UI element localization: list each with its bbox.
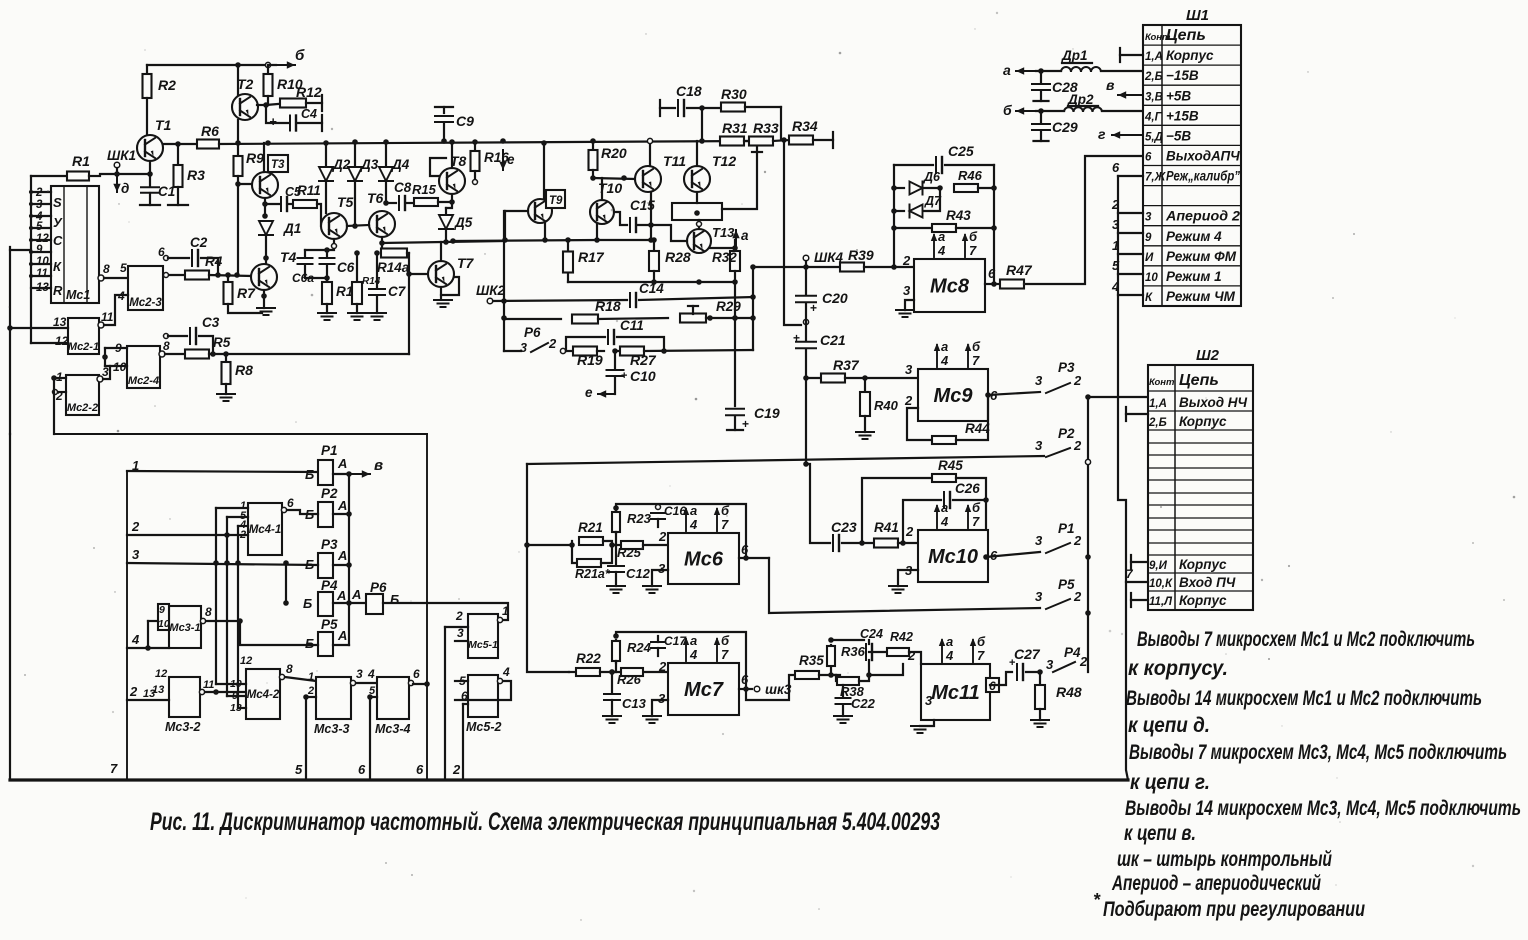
svg-text:Мс3-1: Мс3-1 [169, 622, 200, 634]
resistor R12 [266, 104, 278, 105]
frame right vertical [426, 434, 428, 780]
svg-text:R2: R2 [158, 77, 176, 93]
svg-text:10: 10 [1145, 272, 1158, 284]
wire shk4 stub [805, 261, 807, 267]
arrow а up [735, 230, 737, 248]
resistor R43 row [894, 227, 932, 229]
wire Mc5-1 inputs [445, 626, 468, 628]
svg-text:R3: R3 [187, 167, 205, 183]
svg-text:R44: R44 [965, 421, 990, 436]
wire Mc2-2 output loop [103, 366, 110, 379]
transistor T12 [684, 166, 710, 192]
wire Mc6 out [739, 557, 769, 559]
svg-text:ШК1: ШК1 [107, 148, 136, 163]
wire top rail to б [147, 64, 276, 66]
svg-text:8: 8 [103, 262, 110, 276]
svg-text:С12: С12 [626, 566, 651, 581]
wire R9-T3 base [238, 183, 252, 185]
diode D1 [259, 221, 273, 235]
wire T8 collector [451, 142, 453, 168]
resistor R22 [576, 668, 600, 676]
capacitor C19 [726, 408, 744, 410]
svg-text:1: 1 [1112, 238, 1119, 253]
svg-text:К: К [53, 259, 62, 274]
wire R18 row [504, 318, 561, 320]
bottom bus [10, 778, 1128, 781]
notes text [1093, 628, 1521, 921]
svg-text:Р2: Р2 [1058, 426, 1075, 441]
svg-text:R20: R20 [601, 145, 627, 161]
svg-text:Режим ЧМ: Режим ЧМ [1166, 289, 1236, 304]
svg-text:R6: R6 [201, 123, 219, 139]
wire Вход ПЧ [1126, 581, 1148, 583]
svg-text:Мс11: Мс11 [931, 682, 980, 704]
svg-text:Др2: Др2 [1067, 92, 1094, 107]
wire x504 vertical [503, 240, 505, 301]
switch P6 [504, 350, 521, 352]
svg-text:в: в [374, 457, 383, 474]
svg-text:С19: С19 [754, 405, 780, 421]
wire R4 row [164, 273, 169, 278]
svg-text:С24: С24 [860, 627, 883, 641]
svg-text:С14: С14 [639, 281, 664, 296]
transistor T3 [252, 172, 278, 198]
capacitor C27 [1016, 664, 1018, 680]
svg-text:Цепь: Цепь [1179, 372, 1219, 389]
T12 emitter box [672, 203, 722, 220]
svg-text:Цепь: Цепь [1166, 27, 1206, 44]
wire T11 emitter [650, 192, 652, 240]
resistor R5 [185, 350, 209, 359]
svg-text:Мс4-1: Мс4-1 [249, 524, 282, 536]
svg-text:4,Г: 4,Г [1144, 111, 1163, 123]
Ш1 row1 ground stub [1119, 48, 1121, 62]
arrow to node б [270, 64, 295, 66]
wire R32 node down to C19 [734, 282, 736, 406]
IC Mc7 [668, 663, 739, 715]
svg-text:2: 2 [1073, 438, 1082, 453]
svg-text:R14а: R14а [377, 260, 410, 275]
wire R21 out [603, 541, 612, 545]
wire input node [100, 173, 150, 175]
wire T9 base [505, 210, 528, 212]
svg-text:Д1: Д1 [283, 221, 301, 236]
svg-text:2: 2 [1073, 373, 1082, 388]
svg-text:12: 12 [55, 334, 69, 348]
svg-text:S: S [53, 195, 62, 210]
svg-text:д: д [121, 181, 129, 196]
wire R21 node [527, 544, 572, 546]
svg-text:10: 10 [36, 256, 49, 268]
arrow е down at rail [502, 150, 504, 170]
svg-text:Режим ФМ: Режим ФМ [1166, 249, 1237, 264]
wire C18 junction down [701, 108, 703, 141]
svg-text:6: 6 [988, 266, 996, 281]
IC Mc6 [668, 533, 739, 584]
svg-text:Т2: Т2 [237, 76, 254, 92]
svg-text:R7: R7 [237, 285, 256, 301]
arrow b [1016, 110, 1036, 112]
resistor R41 [874, 539, 898, 548]
svg-text:+: + [742, 417, 749, 431]
svg-text:С21: С21 [820, 332, 846, 348]
IC Mc5-1 [468, 614, 498, 658]
T3 label box [268, 155, 288, 172]
svg-text:Апериод – апериодический: Апериод – апериодический [1111, 872, 1321, 895]
svg-text:9: 9 [159, 604, 165, 616]
svg-text:е: е [585, 385, 593, 400]
svg-text:2,Б: 2,Б [1148, 417, 1167, 429]
resistor R24 [615, 640, 617, 663]
IC Mc2-1 [68, 318, 99, 354]
transistor T1 [137, 135, 163, 161]
svg-text:Р3: Р3 [321, 537, 338, 552]
resistor R33 [744, 140, 750, 142]
svg-text:3: 3 [132, 547, 140, 562]
svg-text:12: 12 [240, 655, 252, 667]
svg-text:R17: R17 [578, 249, 605, 265]
svg-text:*: * [1093, 890, 1101, 910]
svg-text:С18: С18 [676, 83, 702, 99]
wire T2 base node [257, 104, 268, 106]
svg-text:7: 7 [972, 353, 980, 368]
wire x806 down [805, 378, 807, 464]
svg-text:2: 2 [548, 336, 557, 351]
svg-text:3: 3 [903, 283, 911, 298]
svg-text:Выводы 7 микросхем Мс3, Мс4,: Выводы 7 микросхем Мс3, Мс4, Мс5 подключ… [1129, 741, 1507, 764]
resistor R20 [592, 141, 594, 150]
Mc1 left pin numbers [35, 187, 49, 294]
capacitor C26 [903, 500, 941, 543]
transistor T5 [321, 213, 347, 239]
wire to R35 [746, 675, 795, 700]
resistor R32 [734, 240, 736, 251]
wire Mc11 out C27 [990, 672, 1012, 685]
ground under R40 [856, 431, 874, 433]
svg-text:С11: С11 [620, 318, 644, 333]
svg-text:1,А: 1,А [1145, 51, 1163, 63]
svg-text:б: б [972, 500, 981, 515]
svg-text:1,А: 1,А [1149, 398, 1167, 410]
svg-text:Мс9: Мс9 [934, 385, 974, 407]
svg-text:2: 2 [658, 529, 667, 544]
svg-text:7: 7 [721, 517, 729, 532]
svg-text:Т1: Т1 [155, 117, 172, 133]
svg-text:8: 8 [163, 339, 170, 353]
wire T2 collector [237, 65, 239, 95]
diode D7 [910, 205, 923, 218]
svg-text:6: 6 [741, 542, 749, 557]
svg-text:б: б [721, 633, 730, 648]
resistor R8 [225, 354, 227, 362]
column verticals [215, 508, 217, 684]
ground under R48 [1031, 719, 1049, 721]
wire T10 emitter [596, 223, 598, 240]
svg-text:4: 4 [1111, 279, 1120, 294]
svg-text:5: 5 [120, 261, 127, 275]
wire input to Mc6/Mc7 [527, 464, 569, 672]
svg-text:С26: С26 [955, 481, 980, 496]
wire Mc2-2 bottom to frame [53, 378, 55, 434]
IC Mc2-4 [127, 346, 160, 388]
svg-text:2: 2 [905, 524, 914, 539]
svg-text:Ш1: Ш1 [1186, 7, 1209, 24]
ground Mc10 pin3 [898, 570, 918, 586]
ground under R8 [217, 393, 235, 395]
resistor R37 row [806, 377, 821, 379]
svg-text:R34: R34 [792, 118, 818, 134]
ground Mc11 pin3 [920, 720, 934, 726]
svg-text:3: 3 [356, 667, 363, 681]
wire input 2b [127, 699, 169, 701]
wire C24 bottom [868, 660, 870, 675]
wire p5 stub [370, 696, 377, 698]
IC Mc8 [914, 259, 985, 312]
svg-text:7: 7 [977, 648, 985, 663]
resistor R1 [31, 175, 68, 177]
svg-text:Б: Б [305, 636, 314, 651]
svg-text:С3: С3 [202, 315, 220, 330]
svg-text:С2: С2 [190, 235, 208, 250]
wire T10 collector [601, 178, 603, 200]
svg-text:3: 3 [520, 341, 527, 355]
IC Mc3-4 [377, 677, 409, 719]
wire R14a-T7 base [409, 273, 429, 275]
svg-text:С13: С13 [622, 696, 647, 711]
svg-text:9,И: 9,И [1149, 560, 1168, 572]
R33 trimmer tap [756, 146, 758, 152]
wire 4 up [147, 621, 149, 648]
svg-text:4: 4 [940, 514, 949, 529]
svg-text:шк3: шк3 [765, 682, 792, 697]
svg-text:R36: R36 [841, 644, 866, 659]
svg-text:R11: R11 [297, 183, 321, 198]
svg-text:С8: С8 [394, 180, 412, 195]
svg-text:Мс5-1: Мс5-1 [468, 639, 498, 651]
svg-text:4: 4 [689, 517, 698, 532]
svg-text:3: 3 [102, 365, 109, 379]
svg-text:R15: R15 [412, 182, 437, 197]
wire x286 down to P4 row [285, 563, 287, 603]
wire T13 emitter to R32 [710, 247, 735, 249]
resistor R36 [830, 645, 832, 675]
IC Mc4-1 [248, 503, 282, 555]
IC Mc4-2 [246, 669, 280, 719]
resistor R3 [177, 144, 179, 165]
wire R14a right vertical [408, 253, 410, 354]
wire to Mc11 pin2 [869, 664, 903, 675]
test pin ШК1 circle [114, 162, 120, 168]
wire Mc2-1 out to Mc2-3 [104, 295, 128, 325]
wire P3 to Sh2 row1 [1088, 396, 1148, 398]
capacitor C14 [629, 293, 631, 307]
IC Mc3-2 [169, 677, 200, 717]
transistor T10 [590, 200, 614, 224]
svg-text:3: 3 [658, 561, 666, 576]
resistor R18 [572, 315, 598, 324]
svg-text:R42: R42 [890, 630, 913, 644]
resistor R46 [954, 184, 978, 192]
svg-text:У: У [53, 215, 63, 230]
svg-text:Мс7: Мс7 [684, 679, 724, 701]
svg-text:Т4: Т4 [280, 249, 297, 265]
svg-text:R28: R28 [665, 249, 691, 265]
transistor T7 [428, 261, 454, 287]
resistor R47 [1000, 280, 1024, 289]
wire input 4 [127, 647, 169, 649]
wire T12 collector [696, 141, 698, 166]
resistor R17 [567, 240, 569, 252]
resistor R7 [227, 275, 229, 282]
wire Mc2-1 inputs [10, 327, 68, 329]
diode D6 row [893, 165, 895, 267]
resistor R27 [615, 350, 620, 352]
capacitor C20 [805, 267, 807, 294]
svg-text:R22: R22 [576, 651, 601, 666]
svg-text:к корпусу.: к корпусу. [1128, 657, 1228, 680]
svg-text:R25: R25 [617, 545, 642, 560]
wire long y464 [527, 456, 1044, 464]
svg-text:+: + [810, 301, 817, 315]
wire node down to SHK4 line [784, 140, 801, 325]
resistor R25 [612, 544, 620, 546]
svg-text:Режим 4: Режим 4 [1166, 229, 1222, 244]
svg-text:R46: R46 [958, 168, 983, 183]
svg-text:А: А [337, 498, 347, 513]
svg-text:7: 7 [972, 514, 980, 529]
svg-text:3: 3 [1112, 217, 1120, 232]
capacitor C29 [1040, 111, 1042, 122]
svg-text:+5В: +5В [1166, 88, 1191, 103]
contact bus vertical [348, 474, 350, 645]
svg-text:6: 6 [741, 672, 749, 687]
svg-text:8: 8 [286, 662, 293, 676]
svg-text:2: 2 [129, 684, 138, 699]
wire Mc9 out to P3 [988, 392, 1040, 395]
svg-text:R: R [53, 283, 63, 298]
svg-text:6: 6 [1112, 160, 1120, 175]
transistor T6 [369, 211, 395, 237]
wire R2-T1 collector [146, 98, 148, 135]
svg-text:1: 1 [308, 671, 314, 683]
wire Mc6 out to P5 [769, 558, 1040, 613]
wire Mc2-2 pins [54, 377, 66, 379]
wire Mc3-3 bottom [305, 697, 307, 780]
wire R2 top [146, 65, 148, 75]
svg-text:3: 3 [1035, 533, 1043, 548]
svg-text:Д4: Д4 [391, 157, 410, 172]
resistor R13 [326, 278, 328, 282]
diode D5 [445, 208, 447, 214]
wire input 3 [127, 563, 318, 565]
svg-text:ВыходАПЧ: ВыходАПЧ [1166, 149, 1240, 164]
svg-text:к цепи в.: к цепи в. [1124, 822, 1196, 845]
svg-text:С27: С27 [1014, 646, 1041, 662]
svg-text:6: 6 [1145, 152, 1152, 164]
svg-text:Т7: Т7 [457, 255, 475, 271]
wire Mc3-1 out to P5 [206, 621, 318, 645]
svg-text:А: А [337, 548, 347, 563]
resistor R11 [293, 200, 317, 208]
wire D3 down [354, 181, 356, 226]
capacitor C4 [266, 105, 288, 123]
wire input 2 [127, 534, 248, 536]
svg-text:к цепи д.: к цепи д. [1128, 714, 1210, 737]
IC Mc1 box [51, 186, 99, 303]
terminal after R34 [832, 132, 834, 148]
svg-text:+: + [621, 370, 627, 382]
svg-text:Выводы 14 микросхем Мс1 и Мс: Выводы 14 микросхем Мс1 и Мс2 подключить [1126, 687, 1482, 710]
svg-text:Мс3-2: Мс3-2 [165, 720, 200, 734]
svg-text:3: 3 [905, 362, 913, 377]
IC Mc11 [921, 664, 990, 720]
svg-text:4: 4 [940, 353, 949, 368]
wire T9 collector riser [543, 143, 545, 200]
capacitor C5 [265, 203, 279, 205]
svg-text:10,К: 10,К [1149, 578, 1173, 590]
svg-text:А: А [336, 588, 346, 603]
wire x753 vertical [752, 267, 754, 350]
svg-text:7: 7 [721, 647, 729, 662]
svg-text:Д6: Д6 [923, 170, 941, 184]
wire Mc7 out, pin шк3 [739, 688, 752, 690]
svg-text:R45: R45 [938, 458, 963, 473]
svg-text:а: а [690, 503, 697, 518]
svg-text:а: а [741, 228, 749, 243]
svg-text:2,Б: 2,Б [1144, 71, 1163, 83]
svg-text:Подбирают при регулировании: Подбирают при регулировании [1103, 898, 1365, 921]
svg-text:1: 1 [132, 458, 139, 473]
ground under C22 [834, 715, 852, 717]
ground under C7 [368, 312, 386, 314]
wire Mc1 pin8 to Mc2-3 [98, 275, 104, 281]
wire T6 bottom [381, 237, 383, 253]
arrow е left [598, 393, 615, 395]
IC Mc5-2 [468, 675, 498, 717]
svg-text:б: б [972, 339, 981, 354]
svg-text:Д7: Д7 [924, 194, 942, 208]
svg-text:Р1: Р1 [1058, 521, 1075, 536]
svg-text:R21: R21 [578, 520, 603, 535]
svg-text:5: 5 [295, 762, 303, 777]
resistor R28 [653, 240, 655, 251]
wire D1 to T4 [265, 235, 267, 264]
IC Mc2-2 [66, 375, 99, 415]
svg-text:ШК2: ШК2 [476, 283, 506, 298]
svg-text:Д5: Д5 [454, 215, 473, 230]
transistor T8 [439, 168, 465, 194]
svg-text:R4: R4 [205, 254, 223, 269]
wire T8-D5 [446, 202, 452, 208]
resistor R48 [1039, 672, 1041, 685]
svg-text:Б: Б [305, 467, 314, 482]
resistor R19 [566, 350, 572, 352]
svg-text:9: 9 [1145, 232, 1152, 244]
diode D2 [325, 143, 327, 166]
svg-text:А: А [337, 628, 347, 643]
capacitor C1 [149, 174, 151, 186]
transistor T2 [232, 94, 258, 120]
svg-text:6: 6 [416, 762, 424, 777]
wire R30 down to R34 node [780, 107, 782, 140]
svg-text:3: 3 [1145, 212, 1152, 224]
svg-text:R19: R19 [577, 352, 603, 368]
wire riser to bus [462, 704, 464, 780]
resistor R21a [572, 545, 576, 563]
svg-text:7: 7 [969, 243, 977, 258]
arrow д down [116, 176, 118, 192]
svg-text:С22: С22 [851, 696, 876, 711]
